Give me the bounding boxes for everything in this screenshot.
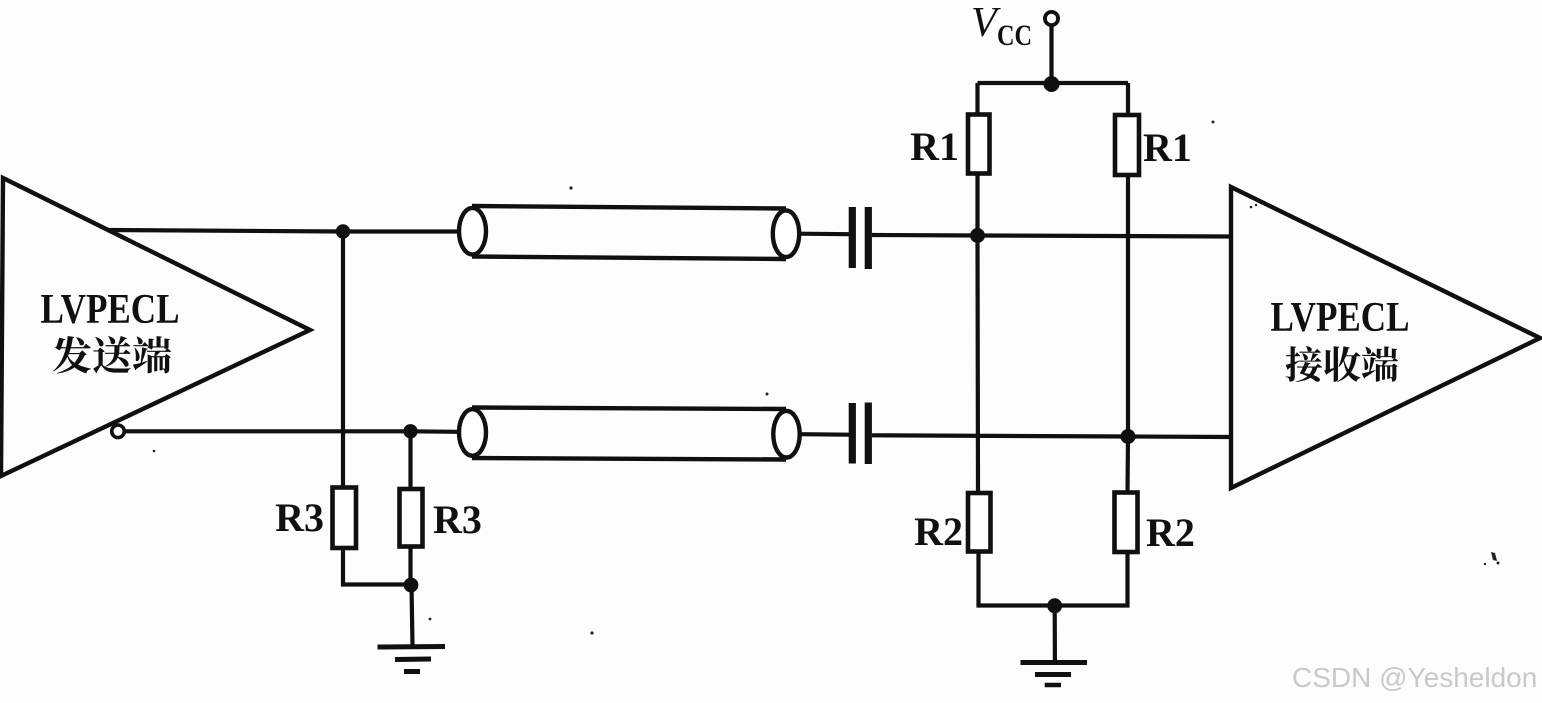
- node: Vcc rail junction: [1044, 76, 1060, 92]
- capacitor C2 (bottom AC coupling): [849, 403, 872, 465]
- node: bottom output junction: [403, 424, 417, 438]
- receiver buffer U2 (LVPECL receiver): [1231, 187, 1540, 488]
- resistor R1 (left): [968, 115, 990, 174]
- svg-text:R3: R3: [433, 497, 482, 542]
- wire: R1 left to top line: [975, 174, 979, 236]
- wire: to ground (left): [412, 585, 413, 646]
- wire: Vcc to rail: [1049, 25, 1053, 83]
- wire: R1 right through top line to bottom line: [1126, 175, 1130, 437]
- svg-text:R2: R2: [1146, 510, 1195, 555]
- wire: vertical drop to left R3: [341, 232, 345, 489]
- wire: R2 right bottom lead: [1055, 552, 1128, 606]
- wire: C1 to receiver (top): [872, 235, 1231, 237]
- inverting output bubble: [112, 425, 125, 438]
- Vcc terminal: [1045, 12, 1058, 25]
- ground (left): [378, 647, 446, 672]
- label 发送端 (transmitter): [53, 336, 171, 374]
- wire: T1 to C1: [799, 232, 849, 237]
- node: top output junction: [336, 224, 350, 238]
- svg-text:R3: R3: [275, 495, 324, 540]
- capacitor C1 (top AC coupling): [849, 207, 872, 269]
- svg-text:LVPECL: LVPECL: [1271, 295, 1410, 341]
- resistor R2 (left): [968, 493, 991, 552]
- transmission line T2 (bottom coax): [459, 408, 800, 460]
- svg-text:R2: R2: [914, 509, 963, 554]
- wire: junction down to R2 left: [975, 236, 980, 494]
- transmission line T1 (top coax): [459, 206, 799, 259]
- wire: junction to R2 right: [1125, 437, 1130, 494]
- node: top line / R1 junction: [970, 228, 985, 243]
- svg-text:R1: R1: [910, 124, 959, 169]
- node: R3 common junction: [404, 578, 419, 593]
- wire: driver inverting output (bottom): [125, 429, 457, 434]
- node: R2 common junction: [1047, 598, 1062, 613]
- ground (right): [1021, 663, 1088, 686]
- resistor R2 (right): [1115, 493, 1138, 553]
- wire: right R3 bottom lead: [408, 547, 412, 585]
- wire: to ground (right): [1053, 606, 1057, 661]
- svg-text:CC: CC: [997, 19, 1032, 52]
- transmitter buffer U1 (LVPECL driver): [1, 178, 310, 476]
- resistor R3 (left): [333, 488, 357, 549]
- svg-text:R1: R1: [1143, 125, 1192, 170]
- wire: rail to R1 right: [1126, 83, 1130, 116]
- resistor R1 (right): [1115, 115, 1139, 175]
- svg-text:CSDN @Yesheldon: CSDN @Yesheldon: [1292, 662, 1537, 693]
- wire: C2 to receiver (bottom): [872, 435, 1231, 437]
- wire: Vcc rail: [978, 81, 1129, 85]
- wire: T2 to C2: [800, 432, 850, 437]
- wire: R2 left bottom lead: [979, 552, 1055, 606]
- node: bottom line / R2 right junction: [1121, 429, 1136, 444]
- wire: driver noninverting output (top): [107, 230, 457, 232]
- wire: rail to R1 left: [975, 83, 979, 115]
- wire: vertical drop to right R3: [408, 431, 412, 490]
- resistor R3 (right): [400, 489, 423, 547]
- label 接收端 (receiver): [1286, 346, 1398, 382]
- speck marks (scan artifacts): [153, 121, 1500, 635]
- svg-text:LVPECL: LVPECL: [41, 287, 180, 333]
- wire: left R3 bottom lead to common node: [343, 548, 411, 585]
